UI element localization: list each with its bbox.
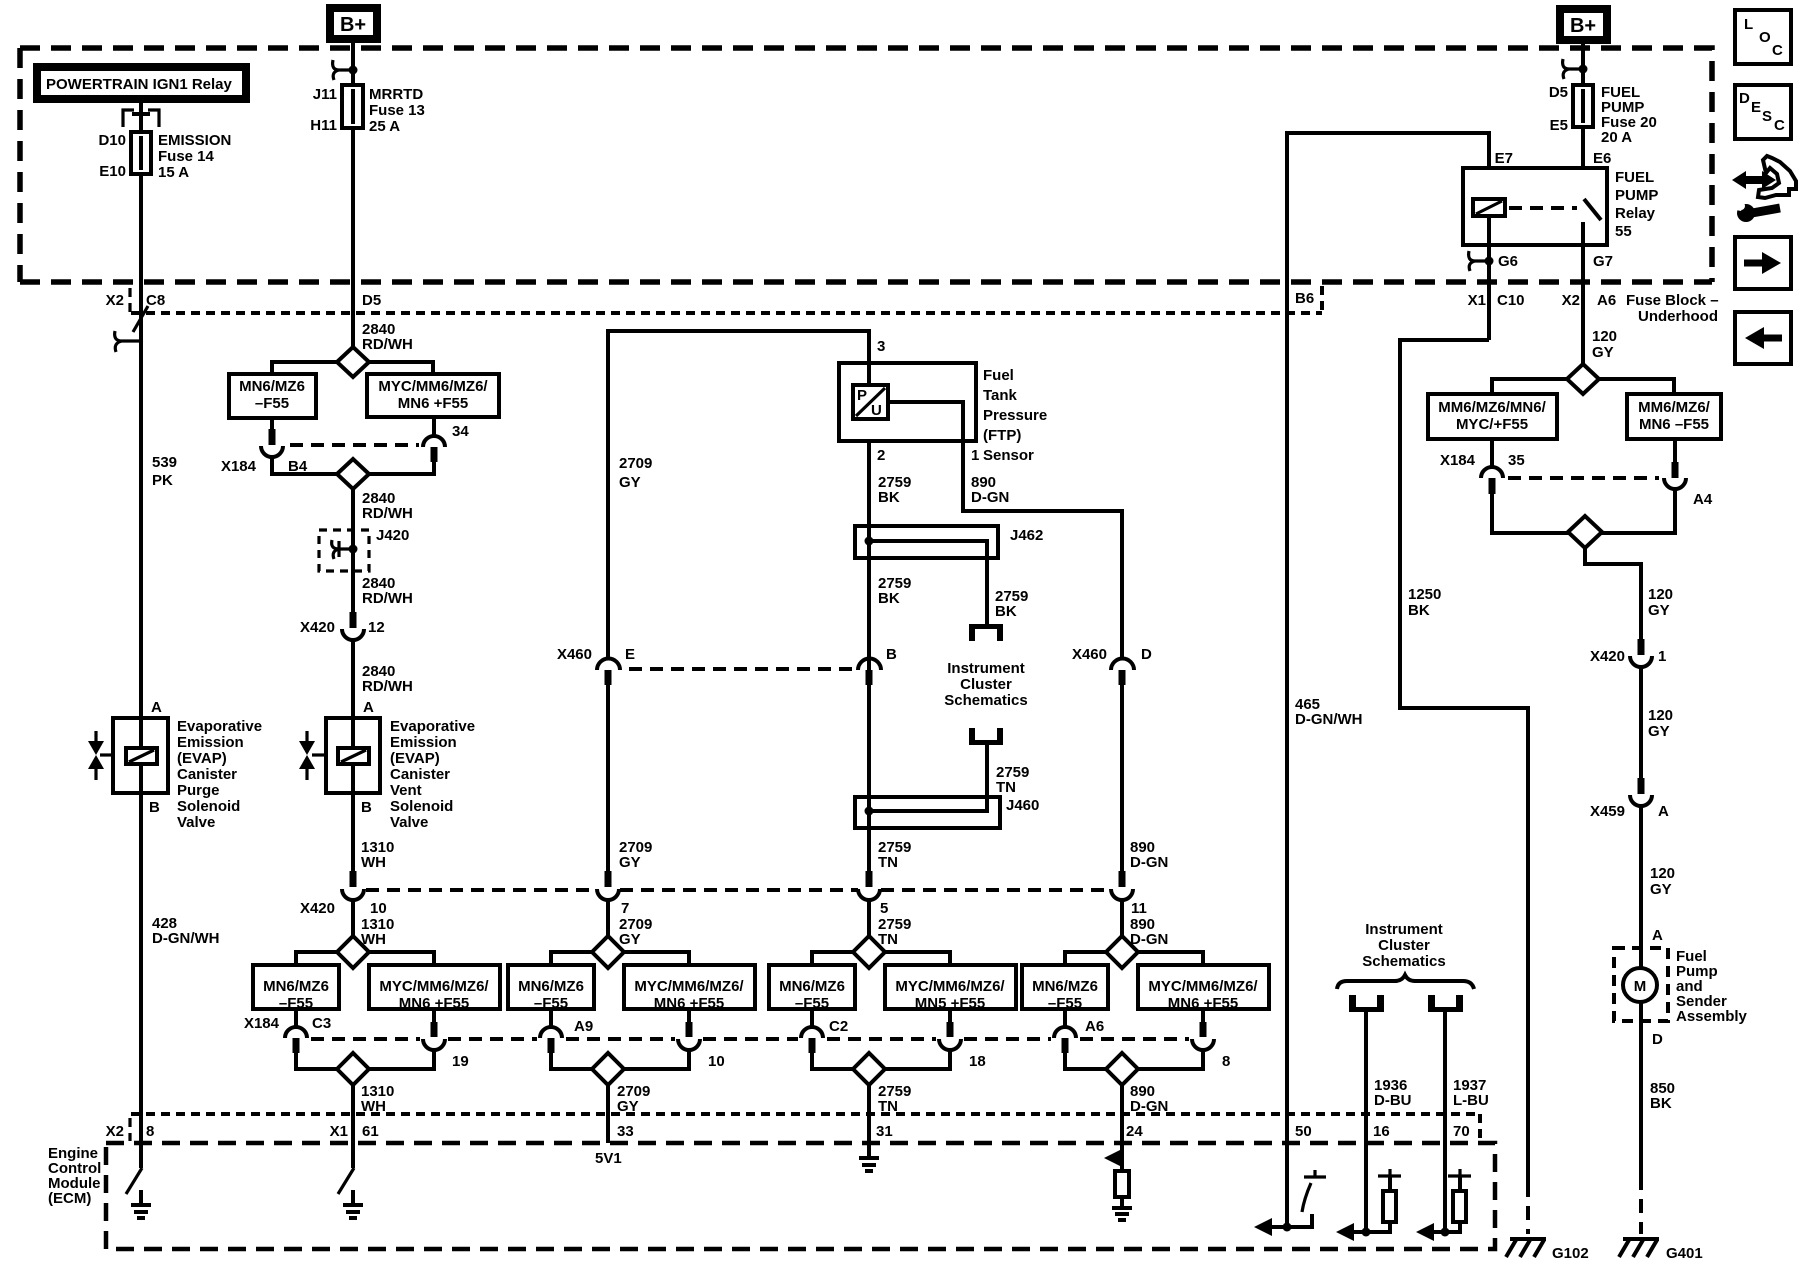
svg-text:POWERTRAIN IGN1 Relay: POWERTRAIN IGN1 Relay [46,76,233,93]
svg-text:–F55: –F55 [795,995,829,1012]
svg-text:Assembly: Assembly [1676,1008,1748,1025]
svg-text:FUEL: FUEL [1615,169,1654,186]
svg-text:MYC/MM6/MZ6/: MYC/MM6/MZ6/ [895,978,1005,995]
svg-text:Sensor: Sensor [983,447,1034,464]
svg-text:G6: G6 [1498,253,1518,270]
svg-text:E10: E10 [99,163,126,180]
svg-text:Cluster: Cluster [960,676,1012,693]
svg-text:A4: A4 [1693,491,1713,508]
svg-text:PUMP: PUMP [1615,187,1658,204]
svg-text:X1: X1 [330,1123,348,1140]
svg-text:C: C [1772,42,1783,59]
svg-text:Instrument: Instrument [947,660,1025,677]
svg-text:Instrument: Instrument [1365,921,1443,938]
svg-text:Relay: Relay [1615,205,1656,222]
svg-text:Emission: Emission [177,734,244,751]
svg-text:D: D [1141,646,1152,663]
svg-text:C8: C8 [146,292,165,309]
svg-text:M: M [1634,978,1647,995]
svg-text:Schematics: Schematics [1362,953,1445,970]
svg-text:Fuse Block –: Fuse Block – [1626,292,1719,309]
svg-text:G102: G102 [1552,1245,1589,1262]
svg-text:X184: X184 [1440,452,1476,469]
svg-text:11: 11 [1131,900,1147,917]
svg-text:D: D [1652,1031,1663,1048]
svg-text:D-GN/WH: D-GN/WH [1295,711,1363,728]
svg-text:D-GN/WH: D-GN/WH [152,930,220,947]
svg-text:70: 70 [1453,1123,1470,1140]
svg-text:B6: B6 [1295,290,1314,307]
svg-text:25 A: 25 A [369,118,400,135]
svg-text:Solenoid: Solenoid [390,798,453,815]
svg-text:2709: 2709 [619,455,652,472]
svg-text:31: 31 [876,1123,893,1140]
svg-text:12: 12 [368,619,385,636]
svg-text:X460: X460 [557,646,592,663]
svg-text:MRRTD: MRRTD [369,86,423,103]
svg-text:Purge: Purge [177,782,220,799]
svg-text:Schematics: Schematics [944,692,1027,709]
svg-text:E7: E7 [1495,150,1513,167]
svg-text:MM6/MZ6/MN6/: MM6/MZ6/MN6/ [1438,399,1546,416]
svg-text:C3: C3 [312,1015,331,1032]
svg-text:MN6/MZ6: MN6/MZ6 [779,978,845,995]
svg-text:D: D [1739,90,1750,107]
svg-text:J462: J462 [1010,527,1043,544]
svg-text:Cluster: Cluster [1378,937,1430,954]
svg-text:U: U [871,402,882,419]
svg-text:L-BU: L-BU [1453,1092,1489,1109]
svg-text:D5: D5 [1549,84,1568,101]
svg-text:34: 34 [452,423,469,440]
svg-text:Emission: Emission [390,734,457,751]
svg-text:16: 16 [1373,1123,1390,1140]
svg-text:A: A [151,699,162,716]
svg-text:Pressure: Pressure [983,407,1047,424]
svg-text:BK: BK [878,590,900,607]
svg-text:B: B [361,799,372,816]
svg-text:2: 2 [877,447,885,464]
svg-text:5: 5 [880,900,888,917]
svg-text:B+: B+ [340,14,366,36]
svg-text:TN: TN [878,1098,898,1115]
svg-text:5V1: 5V1 [595,1150,622,1167]
svg-text:MN6/MZ6: MN6/MZ6 [239,378,305,395]
svg-text:19: 19 [452,1053,469,1070]
svg-text:GY: GY [619,474,641,491]
svg-text:X2: X2 [106,1123,124,1140]
svg-text:B: B [886,646,897,663]
svg-text:X184: X184 [221,458,257,475]
svg-text:GY: GY [1648,723,1670,740]
svg-text:X460: X460 [1072,646,1107,663]
svg-text:120: 120 [1648,707,1673,724]
svg-text:10: 10 [708,1053,725,1070]
svg-text:MYC/MM6/MZ6/: MYC/MM6/MZ6/ [634,978,744,995]
svg-text:RD/WH: RD/WH [362,336,413,353]
svg-text:X420: X420 [300,900,335,917]
svg-text:MN6 +F55: MN6 +F55 [398,395,468,412]
svg-text:BK: BK [1650,1095,1672,1112]
svg-text:(EVAP): (EVAP) [177,750,227,767]
svg-text:8: 8 [1222,1053,1230,1070]
svg-text:GY: GY [619,854,641,871]
svg-text:H11: H11 [310,117,337,134]
svg-text:E5: E5 [1550,117,1568,134]
svg-text:B4: B4 [288,458,308,475]
svg-text:E6: E6 [1593,150,1611,167]
svg-text:J420: J420 [376,527,409,544]
svg-text:D-BU: D-BU [1374,1092,1412,1109]
svg-text:A: A [1658,803,1669,820]
svg-text:RD/WH: RD/WH [362,505,413,522]
svg-text:24: 24 [1126,1123,1143,1140]
svg-text:18: 18 [969,1053,986,1070]
svg-text:MN6 +F55: MN6 +F55 [1168,995,1238,1012]
svg-text:O: O [1759,29,1771,46]
svg-text:MYC/+F55: MYC/+F55 [1456,416,1528,433]
svg-text:J11: J11 [313,86,337,103]
svg-text:D10: D10 [98,132,126,149]
svg-text:10: 10 [370,900,387,917]
svg-text:Valve: Valve [177,814,215,831]
svg-text:120: 120 [1648,586,1673,603]
svg-text:Fuse 14: Fuse 14 [158,148,215,165]
svg-text:Fuel: Fuel [983,367,1014,384]
svg-text:–F55: –F55 [279,995,313,1012]
svg-text:15 A: 15 A [158,164,189,181]
svg-text:Vent: Vent [390,782,422,799]
svg-text:E: E [625,646,635,663]
svg-text:MN6/MZ6: MN6/MZ6 [1032,978,1098,995]
svg-text:(FTP): (FTP) [983,427,1021,444]
svg-text:A9: A9 [574,1018,593,1035]
svg-text:D-GN: D-GN [1130,931,1168,948]
svg-text:J460: J460 [1006,797,1039,814]
svg-text:X420: X420 [1590,648,1625,665]
svg-text:GY: GY [619,931,641,948]
svg-text:C2: C2 [829,1018,848,1035]
svg-text:GY: GY [1648,602,1670,619]
svg-text:20 A: 20 A [1601,129,1632,146]
svg-text:A: A [1652,927,1663,944]
svg-text:3: 3 [877,338,885,355]
svg-text:MN6 +F55: MN6 +F55 [654,995,724,1012]
svg-text:1: 1 [971,447,979,464]
svg-text:RD/WH: RD/WH [362,678,413,695]
svg-text:D5: D5 [362,292,381,309]
svg-text:Fuse 13: Fuse 13 [369,102,425,119]
svg-text:35: 35 [1508,452,1525,469]
svg-text:L: L [1744,16,1753,33]
svg-text:120: 120 [1650,865,1675,882]
svg-text:MN6/MZ6: MN6/MZ6 [263,978,329,995]
svg-text:C: C [1774,117,1785,134]
svg-text:P: P [857,387,867,404]
svg-text:C10: C10 [1497,292,1525,309]
svg-text:EMISSION: EMISSION [158,132,231,149]
svg-text:D-GN: D-GN [971,489,1009,506]
svg-text:MN6 +F55: MN6 +F55 [399,995,469,1012]
svg-text:GY: GY [617,1098,639,1115]
svg-text:X459: X459 [1590,803,1625,820]
svg-text:Underhood: Underhood [1638,308,1718,325]
svg-text:X184: X184 [244,1015,280,1032]
svg-text:Evaporative: Evaporative [390,718,475,735]
svg-text:Canister: Canister [177,766,237,783]
svg-text:WH: WH [361,854,386,871]
svg-text:X2: X2 [106,292,124,309]
svg-text:TN: TN [996,779,1016,796]
svg-text:BK: BK [878,489,900,506]
svg-text:539: 539 [152,454,177,471]
svg-text:X2: X2 [1562,292,1580,309]
svg-text:–F55: –F55 [1048,995,1082,1012]
svg-text:B: B [149,799,160,816]
svg-text:MN6 –F55: MN6 –F55 [1639,416,1709,433]
svg-text:7: 7 [621,900,629,917]
svg-text:Canister: Canister [390,766,450,783]
svg-text:Tank: Tank [983,387,1018,404]
svg-text:PK: PK [152,472,173,489]
svg-text:Valve: Valve [390,814,428,831]
svg-text:S: S [1762,108,1772,125]
svg-text:A6: A6 [1597,292,1616,309]
svg-text:X1: X1 [1468,292,1486,309]
svg-text:BK: BK [1408,602,1430,619]
svg-text:MN5 +F55: MN5 +F55 [915,995,985,1012]
svg-text:D-GN: D-GN [1130,1098,1168,1115]
svg-text:G7: G7 [1593,253,1613,270]
svg-text:G401: G401 [1666,1245,1703,1262]
svg-text:55: 55 [1615,223,1632,240]
svg-text:RD/WH: RD/WH [362,590,413,607]
svg-text:A6: A6 [1085,1018,1104,1035]
svg-text:TN: TN [878,931,898,948]
svg-text:–F55: –F55 [255,395,289,412]
svg-text:(ECM): (ECM) [48,1190,91,1207]
svg-text:E: E [1751,99,1761,116]
svg-text:A: A [363,699,374,716]
svg-text:Solenoid: Solenoid [177,798,240,815]
svg-text:(EVAP): (EVAP) [390,750,440,767]
svg-text:33: 33 [617,1123,634,1140]
svg-text:MN6/MZ6: MN6/MZ6 [518,978,584,995]
svg-text:–F55: –F55 [534,995,568,1012]
svg-text:D-GN: D-GN [1130,854,1168,871]
svg-text:WH: WH [361,931,386,948]
svg-text:X420: X420 [300,619,335,636]
svg-text:WH: WH [361,1098,386,1115]
svg-text:MYC/MM6/MZ6/: MYC/MM6/MZ6/ [378,378,488,395]
svg-text:1: 1 [1658,648,1666,665]
svg-text:B+: B+ [1570,15,1596,37]
svg-text:8: 8 [146,1123,154,1140]
svg-text:1250: 1250 [1408,586,1441,603]
svg-text:BK: BK [995,603,1017,620]
svg-text:MYC/MM6/MZ6/: MYC/MM6/MZ6/ [379,978,489,995]
svg-text:GY: GY [1592,344,1614,361]
svg-text:TN: TN [878,854,898,871]
svg-text:MM6/MZ6/: MM6/MZ6/ [1638,399,1711,416]
svg-text:61: 61 [362,1123,379,1140]
svg-text:50: 50 [1295,1123,1312,1140]
svg-text:GY: GY [1650,881,1672,898]
svg-text:Evaporative: Evaporative [177,718,262,735]
svg-text:MYC/MM6/MZ6/: MYC/MM6/MZ6/ [1148,978,1258,995]
svg-text:120: 120 [1592,328,1617,345]
